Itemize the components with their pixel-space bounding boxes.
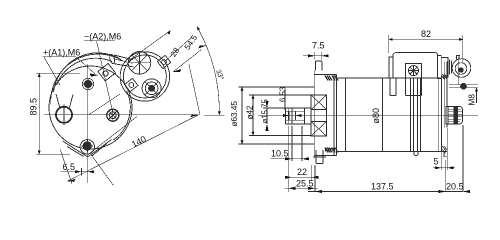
left view: bottom V inner line left <box>67 147 84 157</box>
side view: bottom-left clamp detail <box>326 149 335 152</box>
svg-text:−(A2),M6: −(A2),M6 <box>84 32 121 42</box>
dim phi63.45 bottom extension <box>239 143 314 145</box>
svg-text:140: 140 <box>130 134 148 150</box>
dim 25.5 line <box>285 187 318 189</box>
side view: flange right face <box>333 75 335 156</box>
dim 137.5 arrows <box>315 190 446 193</box>
dim 10.5 ext right <box>301 126 303 161</box>
side view: solenoid mount bracket legs <box>406 78 422 96</box>
side view: solenoid terminal boot nub <box>457 56 460 60</box>
dim phi15.75 top extension <box>263 107 289 109</box>
side view: pinion outline <box>311 95 327 136</box>
side view: flange bottom hatch patch <box>325 148 338 153</box>
left view: terminal stud pad A circle <box>103 71 108 76</box>
dim 6.5 arrows <box>75 170 94 173</box>
side view: solenoid terminal boot inner circle <box>455 63 467 75</box>
side view: solenoid washer 2 <box>451 61 453 74</box>
left view: casting shoulder outer arc <box>51 54 123 104</box>
dim 25.5 ext left <box>287 126 289 192</box>
side view: pinion bottom tooth box <box>311 122 327 137</box>
left view: neck boss top line <box>114 55 133 60</box>
side view: rear bracket line 2 <box>446 62 448 128</box>
svg-text:ø63.45: ø63.45 <box>230 101 239 127</box>
dim phi15.75 line <box>266 108 268 124</box>
dim ext line long arrow <box>167 31 171 35</box>
dim 10.5 arrows <box>285 157 309 160</box>
side view: pinion top tooth box <box>311 95 327 110</box>
left view: solenoid bolt hatch <box>145 82 158 95</box>
dim 20.5 ext left <box>445 160 447 192</box>
dim 22 arrows <box>285 176 319 179</box>
left view: solenoid outer circle <box>120 52 169 101</box>
dim 140 extension line upper-right <box>189 65 200 116</box>
side view: flange foot bottom <box>316 162 323 164</box>
left view: bottom V tab left line <box>63 141 86 155</box>
side view: shaft front face <box>285 108 287 124</box>
left view: diagonal centerline <box>88 117 138 156</box>
side view: solenoid mount bracket <box>406 64 422 79</box>
side view: battery terminal thread lines <box>448 109 462 121</box>
left view: left mounting hole <box>56 107 72 123</box>
side view: flange right face 2 <box>336 75 338 156</box>
svg-text:ø15.75: ø15.75 <box>261 99 270 124</box>
dim 7.5 tick right <box>321 52 323 60</box>
left view: bottom ear bolt cross <box>82 140 94 153</box>
side view: flange bottom line <box>314 155 336 157</box>
side view: flange top ear <box>315 61 322 71</box>
side view: solenoid mount screw head <box>409 66 419 76</box>
side view: solenoid front legs <box>390 78 396 96</box>
side view: shaft groove <box>291 108 293 124</box>
label +(A1),M6 underline <box>43 56 76 58</box>
side view: rear bracket top hatch <box>442 75 448 80</box>
dim phi63.45 top extension <box>239 86 314 88</box>
dim 7.5 arrows <box>308 54 329 57</box>
side view: solenoid washer 1 <box>449 60 451 75</box>
side view: through bolt line 1 <box>410 78 412 152</box>
dim M8 extension top <box>466 84 478 86</box>
left view: solenoid bolt outer ring <box>142 79 161 98</box>
side view: horizontal centerline <box>258 114 478 116</box>
side view: solenoid front bracket <box>389 57 393 78</box>
left view: center bolt hatch <box>109 109 117 121</box>
side view: through bolt bottom tab <box>414 152 418 156</box>
label -(A2),M6 underline <box>84 40 115 42</box>
dim phi42 line <box>252 95 254 136</box>
left view: center shaft bolt inner <box>109 112 116 119</box>
dim 6.53 leader <box>284 90 286 110</box>
side view: solenoid rear plate <box>438 56 442 79</box>
svg-text:82: 82 <box>421 29 431 39</box>
left view: bottom ear bolt <box>83 142 91 150</box>
dim 20.5 ext right <box>462 125 464 192</box>
svg-text:20.5: 20.5 <box>446 182 464 192</box>
left view: bottom V tab tip <box>85 155 90 157</box>
dim 89.5 bottom extension line <box>36 153 70 155</box>
side view: body bottom line <box>337 151 448 153</box>
dim 7.5 tick left <box>314 52 316 60</box>
label -(A2),M6 leader <box>97 41 114 114</box>
side view: pinion bottom hatch <box>311 122 327 137</box>
left view: neck boss mid line <box>113 59 132 64</box>
svg-text:22: 22 <box>297 167 307 177</box>
dim 25.5 ext mid <box>314 165 316 192</box>
dim 140 line <box>67 115 198 181</box>
side view: flange foot right <box>322 150 324 163</box>
dim 89.5 line <box>38 73 40 154</box>
left view: terminal stud pad A <box>98 63 116 80</box>
side view: battery terminal profile <box>446 107 463 125</box>
side view: through bolt line 3 <box>417 78 419 152</box>
left view: left bolt support arm left <box>56 94 60 109</box>
svg-text:7.5: 7.5 <box>312 41 325 51</box>
svg-text:+(A1),M6: +(A1),M6 <box>43 48 80 58</box>
side view: body seam 1 <box>344 78 346 152</box>
side view: solenoid terminal boot axis line <box>457 56 459 85</box>
svg-text:ø42: ø42 <box>246 105 255 120</box>
svg-text:5: 5 <box>434 157 439 167</box>
left view: solenoid axis stub <box>89 94 120 115</box>
dim 7.5 line <box>303 55 329 57</box>
left view: upper terminal bolt <box>84 80 91 87</box>
left view: solenoid pad left <box>125 78 138 91</box>
left view: casting shoulder rib arc 2 <box>57 58 113 85</box>
dim 22 ext right <box>311 165 313 180</box>
dim 140 arrow right <box>190 114 198 117</box>
side view: rear foot step <box>444 152 447 157</box>
dim 140 extension line lower-left <box>60 149 72 184</box>
bottom chain line <box>308 191 463 193</box>
svg-text:137.5: 137.5 <box>371 182 394 192</box>
left view: V tip extension line right <box>91 155 114 186</box>
dim 28/54.5 extension line mid <box>164 37 192 62</box>
side view: flange top hatch patch <box>325 76 338 81</box>
dim 5 ext right <box>446 128 448 170</box>
side view: solenoid terminal boot circle <box>452 59 471 78</box>
dim 54.5 line <box>173 50 201 72</box>
side view: solenoid mount screw cross <box>409 66 419 76</box>
left view: upper terminal bolt cross <box>83 78 94 90</box>
side view: rear bracket line 1 <box>444 62 446 128</box>
left view: solenoid bolt mid ring <box>145 82 158 95</box>
dim 6.5 tick left <box>81 168 83 176</box>
left view: left bolt support arm right <box>70 95 74 108</box>
dim 54.5 arrows <box>173 45 207 72</box>
side view: body seam 2 <box>382 78 384 152</box>
label +(A1),M6 leader <box>76 57 95 74</box>
dim 25.5 arrows <box>288 187 315 190</box>
dim M8 line <box>476 88 478 103</box>
side view: through bolt line 2 <box>413 78 415 152</box>
svg-text:10.5: 10.5 <box>271 149 289 159</box>
side view: shaft spline end <box>304 108 306 124</box>
dim 28/54.5 extension line long <box>129 31 171 61</box>
side view: through bolt line 4 <box>420 78 422 152</box>
side view: body right end line 1 <box>438 78 440 152</box>
label +(A1),M6 secondary leader <box>44 57 60 85</box>
dim 6.53 tick right <box>295 111 297 120</box>
svg-text:33°: 33° <box>214 68 225 81</box>
left view: casting shoulder rib arc 1 <box>54 53 122 92</box>
side view: shaft bottom line <box>286 123 312 125</box>
svg-text:6.53: 6.53 <box>279 87 288 102</box>
dim 140 arrow left <box>67 179 75 182</box>
side view: shaft spline top <box>286 110 305 112</box>
side view: rear stud nut <box>461 83 467 89</box>
dim 82 line <box>389 38 463 40</box>
dim 5 arrows <box>435 166 454 169</box>
side view: pinion top hatch <box>311 95 327 110</box>
svg-text:M8: M8 <box>468 94 477 106</box>
dim 89.5 top extension line <box>36 72 80 74</box>
left view: yoke outer circle <box>49 66 132 149</box>
dim 22 line <box>287 176 314 178</box>
label +(A1),M6 arrow <box>90 73 99 76</box>
side view: rear foot hatch <box>442 146 448 154</box>
dim 6.53 tick left <box>288 111 290 120</box>
left view: bottom V inner line right <box>92 144 107 157</box>
left view: bottom ear ring <box>80 140 94 154</box>
left view: solenoid bolt core <box>149 85 155 91</box>
dim phi63.45 line <box>241 87 243 144</box>
side view: solenoid terminal boot core <box>459 68 463 72</box>
dim 10.5 line <box>270 158 302 160</box>
left view: solenoid pad right <box>157 55 170 68</box>
side view: battery terminal left cap <box>446 107 449 125</box>
left view: solenoid inner circle <box>123 55 166 98</box>
svg-text:6.5: 6.5 <box>63 162 76 172</box>
dim phi15.75 arrows <box>265 101 268 131</box>
left view: solenoid pad right circle <box>162 60 167 65</box>
left view: center shaft bolt outer <box>107 109 119 121</box>
left view: neck boss end ellipse <box>109 54 116 64</box>
dim 5 line <box>433 167 455 169</box>
left view: left mounting hole cross <box>54 105 75 126</box>
svg-text:54.5: 54.5 <box>183 33 200 52</box>
svg-text:ø80: ø80 <box>371 108 381 124</box>
dim 82 extension right <box>462 35 464 62</box>
dim 33deg leg stub <box>204 114 224 116</box>
side view: shaft spline bottom <box>286 119 305 121</box>
dim M8 extension bottom <box>466 87 478 89</box>
left view: neck boss bottom line <box>112 63 134 67</box>
side view: solenoid rear cap <box>441 58 448 78</box>
side view: flange top line <box>314 74 336 76</box>
left view: solenoid plunger circle <box>128 52 151 75</box>
side view: shaft top line <box>286 107 312 109</box>
side view: battery terminal core <box>454 107 458 124</box>
left view: solenoid plunger spokes <box>128 52 151 75</box>
dim phi42 top extension <box>249 94 311 96</box>
dim 5 ext left <box>440 152 442 170</box>
left view: vertical centerline <box>87 64 89 183</box>
dim 20.5 arrows <box>439 190 470 193</box>
dim 82 extension left <box>388 35 390 53</box>
dim 6.5 line <box>60 171 92 173</box>
side view: rear stud shaft <box>449 85 461 88</box>
left view: solenoid pad left circle <box>129 83 134 88</box>
dim 10.5 ext left <box>291 126 293 161</box>
left view: yoke inner arc right <box>113 91 130 140</box>
side view: flange foot washer line <box>313 156 326 158</box>
svg-text:89.5: 89.5 <box>29 98 39 116</box>
side view: solenoid body <box>393 53 438 78</box>
left view: bottom V tab right line <box>90 140 111 156</box>
left view: upper terminal bolt ring <box>82 78 93 89</box>
side view: body top line <box>334 77 441 79</box>
left view: horizontal centerline <box>44 114 199 116</box>
side view: flange foot left <box>315 150 317 163</box>
dim 6.53 arrows <box>283 114 302 117</box>
svg-text:25.5: 25.5 <box>296 179 314 189</box>
side view: body right end line 2 <box>440 78 442 152</box>
dim phi42 bottom extension <box>249 135 311 137</box>
side view: shaft chamfer line <box>287 108 289 124</box>
side view: flange left face <box>313 71 315 157</box>
dim 33deg arc <box>197 27 219 116</box>
